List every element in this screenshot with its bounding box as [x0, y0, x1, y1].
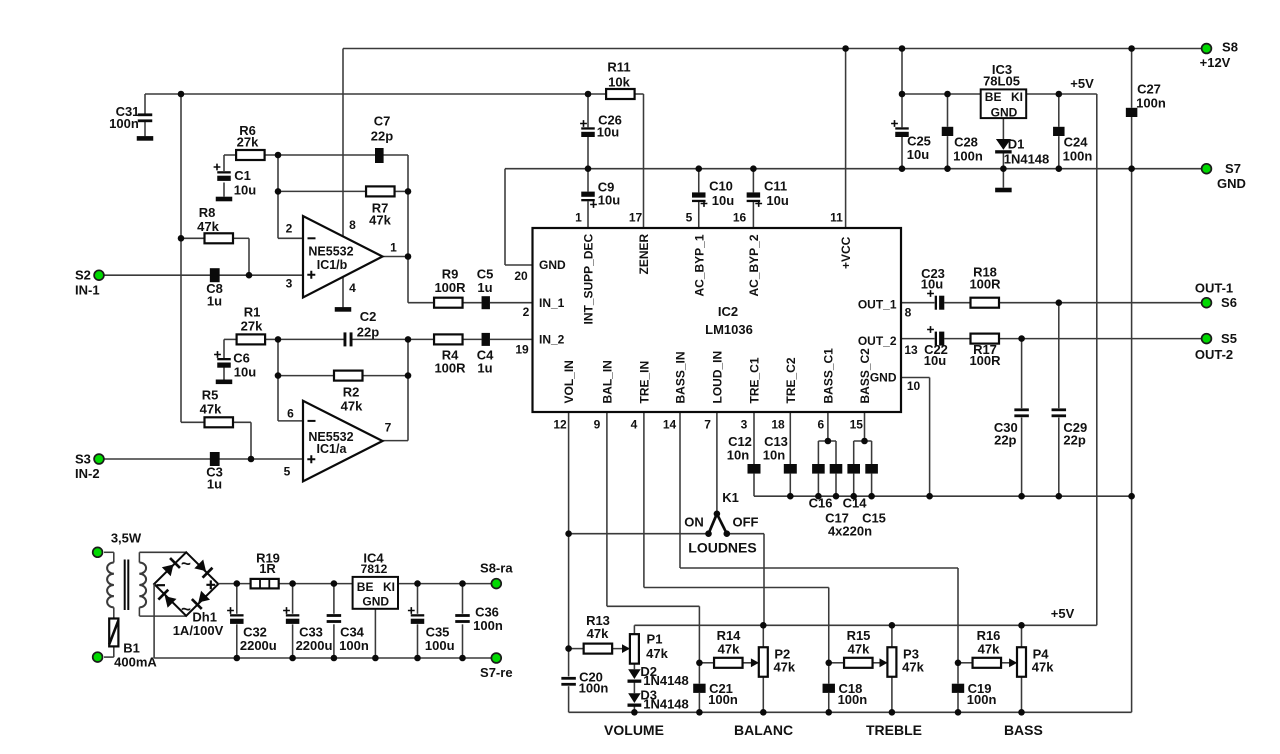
svg-text:+12V: +12V — [1200, 55, 1231, 70]
svg-text:AC_BYP_1: AC_BYP_1 — [692, 234, 706, 296]
svg-text:100R: 100R — [434, 361, 466, 376]
svg-text:3,5W: 3,5W — [111, 531, 142, 546]
svg-text:5: 5 — [686, 211, 693, 225]
svg-text:100n: 100n — [838, 692, 868, 707]
svg-text:OFF: OFF — [733, 515, 759, 530]
svg-text:1: 1 — [390, 241, 397, 255]
svg-text:15: 15 — [850, 418, 864, 432]
svg-text:9: 9 — [594, 418, 601, 432]
svg-text:1u: 1u — [207, 477, 222, 492]
svg-text:GND: GND — [870, 371, 897, 385]
svg-text:KI: KI — [383, 580, 395, 594]
svg-text:10u: 10u — [234, 365, 256, 380]
svg-text:C7: C7 — [374, 114, 391, 129]
svg-text:~: ~ — [181, 600, 191, 619]
svg-text:GND: GND — [362, 594, 389, 608]
svg-text:OUT_1: OUT_1 — [858, 298, 897, 312]
svg-text:47k: 47k — [369, 213, 391, 228]
svg-text:47k: 47k — [197, 219, 219, 234]
svg-text:13: 13 — [904, 343, 918, 357]
svg-text:78L05: 78L05 — [983, 74, 1020, 89]
svg-text:100u: 100u — [425, 638, 455, 653]
svg-text:1: 1 — [575, 211, 582, 225]
svg-text:10u: 10u — [712, 193, 734, 208]
svg-text:19: 19 — [515, 343, 529, 357]
svg-text:5: 5 — [284, 465, 291, 479]
svg-text:100n: 100n — [953, 149, 983, 164]
svg-text:100R: 100R — [969, 277, 1001, 292]
svg-text:KI: KI — [1011, 90, 1023, 104]
svg-text:1N4148: 1N4148 — [1004, 152, 1050, 167]
svg-text:12: 12 — [553, 418, 567, 432]
svg-text:14: 14 — [663, 418, 677, 432]
svg-text:11: 11 — [830, 211, 843, 225]
svg-text:NE5532: NE5532 — [308, 245, 353, 259]
svg-text:1N4148: 1N4148 — [643, 673, 689, 688]
svg-text:1u: 1u — [477, 280, 492, 295]
svg-text:100n: 100n — [109, 116, 139, 131]
svg-text:BAL_IN: BAL_IN — [601, 360, 615, 403]
svg-text:OUT-2: OUT-2 — [1195, 347, 1233, 362]
svg-text:BASS_C1: BASS_C1 — [822, 348, 836, 404]
svg-text:1A/100V: 1A/100V — [173, 623, 224, 638]
svg-text:100n: 100n — [1136, 96, 1166, 111]
svg-text:LM1036: LM1036 — [705, 322, 753, 337]
svg-text:2200u: 2200u — [296, 638, 333, 653]
svg-text:+5V: +5V — [1051, 606, 1075, 621]
svg-text:R5: R5 — [202, 388, 219, 403]
svg-text:VOL_IN: VOL_IN — [562, 360, 576, 403]
svg-text:R1: R1 — [244, 305, 261, 320]
svg-text:BE: BE — [357, 580, 374, 594]
svg-text:C10: C10 — [709, 179, 733, 194]
svg-text:20: 20 — [514, 269, 528, 283]
svg-text:22p: 22p — [994, 433, 1016, 448]
svg-text:47k: 47k — [1032, 660, 1054, 675]
svg-text:TRE_C2: TRE_C2 — [784, 357, 798, 403]
svg-text:VOLUME: VOLUME — [604, 722, 664, 738]
svg-text:10u: 10u — [598, 193, 620, 208]
svg-text:27k: 27k — [237, 135, 259, 150]
svg-text:47k: 47k — [718, 642, 740, 657]
svg-text:C24: C24 — [1064, 135, 1089, 150]
svg-text:2: 2 — [523, 305, 530, 319]
svg-text:100n: 100n — [339, 638, 369, 653]
svg-text:BASS: BASS — [1004, 722, 1043, 738]
svg-text:ZENER: ZENER — [637, 233, 651, 274]
svg-text:22p: 22p — [1063, 433, 1085, 448]
svg-text:C1: C1 — [234, 168, 251, 183]
svg-text:7: 7 — [385, 421, 392, 435]
svg-text:BALANC: BALANC — [734, 722, 793, 738]
svg-text:10k: 10k — [608, 75, 630, 90]
svg-text:S8-ra: S8-ra — [480, 561, 513, 576]
svg-text:IC1/b: IC1/b — [317, 258, 348, 272]
svg-text:OUT-1: OUT-1 — [1195, 281, 1233, 296]
svg-text:10u: 10u — [766, 193, 788, 208]
svg-text:100R: 100R — [434, 280, 466, 295]
svg-text:1R: 1R — [259, 561, 276, 576]
svg-text:17: 17 — [629, 211, 643, 225]
svg-text:AC_BYP_2: AC_BYP_2 — [747, 234, 761, 296]
svg-text:IN-2: IN-2 — [75, 466, 100, 481]
svg-text:S3: S3 — [75, 451, 91, 466]
svg-text:S6: S6 — [1221, 295, 1237, 310]
svg-text:2200u: 2200u — [240, 638, 277, 653]
svg-text:LOUD_IN: LOUD_IN — [711, 351, 725, 404]
svg-text:C6: C6 — [233, 351, 250, 366]
svg-text:47k: 47k — [978, 642, 1000, 657]
svg-text:BASS_IN: BASS_IN — [674, 351, 688, 403]
svg-text:18: 18 — [771, 418, 785, 432]
svg-text:S7-re: S7-re — [480, 665, 513, 680]
svg-text:C16: C16 — [809, 496, 833, 511]
svg-text:IN_2: IN_2 — [539, 333, 565, 347]
svg-text:10: 10 — [907, 379, 921, 393]
svg-text:47k: 47k — [902, 660, 924, 675]
svg-text:100n: 100n — [473, 618, 503, 633]
svg-text:10u: 10u — [597, 125, 619, 140]
svg-text:C28: C28 — [954, 135, 978, 150]
svg-text:1u: 1u — [207, 294, 222, 309]
svg-text:C27: C27 — [1137, 82, 1161, 97]
svg-text:47k: 47k — [200, 402, 222, 417]
svg-text:16: 16 — [733, 211, 747, 225]
svg-text:10u: 10u — [921, 277, 943, 292]
svg-text:C14: C14 — [843, 496, 868, 511]
svg-text:2: 2 — [286, 222, 293, 236]
svg-text:D1: D1 — [1008, 137, 1025, 152]
svg-text:ON: ON — [684, 515, 704, 530]
svg-text:27k: 27k — [241, 318, 263, 333]
svg-text:R8: R8 — [199, 205, 216, 220]
svg-text:+VCC: +VCC — [839, 236, 853, 269]
svg-text:10n: 10n — [727, 448, 749, 463]
svg-text:6: 6 — [817, 418, 824, 432]
svg-text:R11: R11 — [607, 60, 630, 75]
svg-text:S8: S8 — [1222, 40, 1238, 55]
svg-text:100n: 100n — [967, 692, 997, 707]
svg-text:6: 6 — [287, 407, 294, 421]
svg-text:22p: 22p — [371, 129, 393, 144]
svg-text:IC2: IC2 — [718, 304, 738, 319]
svg-text:S5: S5 — [1221, 331, 1237, 346]
svg-text:400mA: 400mA — [114, 655, 157, 670]
svg-text:8: 8 — [349, 218, 356, 232]
svg-text:47k: 47k — [341, 399, 363, 414]
svg-text:7812: 7812 — [361, 562, 388, 576]
svg-text:~: ~ — [181, 554, 191, 573]
svg-text:BE: BE — [985, 90, 1002, 104]
svg-text:8: 8 — [905, 306, 912, 320]
svg-text:GND: GND — [539, 258, 566, 272]
svg-text:100R: 100R — [969, 353, 1001, 368]
svg-text:S2: S2 — [75, 268, 91, 283]
svg-text:47k: 47k — [848, 642, 870, 657]
svg-text:GND: GND — [1217, 176, 1246, 191]
svg-text:IN_1: IN_1 — [539, 296, 565, 310]
svg-text:P1: P1 — [647, 632, 663, 647]
svg-text:R2: R2 — [343, 385, 360, 400]
svg-text:4: 4 — [349, 281, 356, 295]
svg-text:B1: B1 — [123, 641, 140, 656]
svg-text:22p: 22p — [357, 325, 379, 340]
svg-text:C11: C11 — [764, 179, 787, 194]
svg-text:100n: 100n — [1063, 149, 1093, 164]
svg-text:3: 3 — [741, 418, 748, 432]
svg-text:3: 3 — [286, 277, 293, 291]
svg-text:INT_SUPP_DEC: INT_SUPP_DEC — [582, 233, 596, 324]
svg-text:1u: 1u — [477, 361, 492, 376]
svg-text:7: 7 — [704, 418, 711, 432]
svg-text:BASS_C2: BASS_C2 — [858, 348, 872, 404]
svg-text:LOUDNES: LOUDNES — [688, 540, 756, 556]
svg-text:TRE_C1: TRE_C1 — [748, 357, 762, 403]
svg-text:100n: 100n — [708, 692, 738, 707]
svg-text:OUT_2: OUT_2 — [858, 334, 897, 348]
svg-text:IC1/a: IC1/a — [317, 442, 348, 456]
svg-text:10n: 10n — [763, 448, 785, 463]
svg-text:C2: C2 — [360, 309, 377, 324]
svg-text:10u: 10u — [907, 147, 929, 162]
svg-text:1N4148: 1N4148 — [643, 697, 689, 712]
svg-text:47k: 47k — [646, 646, 668, 661]
svg-text:GND: GND — [991, 105, 1018, 119]
svg-text:TRE_IN: TRE_IN — [638, 361, 652, 404]
svg-text:4x220n: 4x220n — [828, 524, 872, 539]
svg-text:+5V: +5V — [1070, 76, 1094, 91]
svg-text:100n: 100n — [579, 681, 609, 696]
svg-text:4: 4 — [631, 418, 638, 432]
svg-text:TREBLE: TREBLE — [866, 722, 922, 738]
svg-text:10u: 10u — [234, 183, 256, 198]
svg-text:IN-1: IN-1 — [75, 282, 100, 297]
svg-text:S7: S7 — [1225, 161, 1241, 176]
svg-text:K1: K1 — [722, 490, 739, 505]
svg-text:47k: 47k — [773, 660, 795, 675]
svg-text:10u: 10u — [924, 353, 946, 368]
svg-text:47k: 47k — [587, 626, 609, 641]
